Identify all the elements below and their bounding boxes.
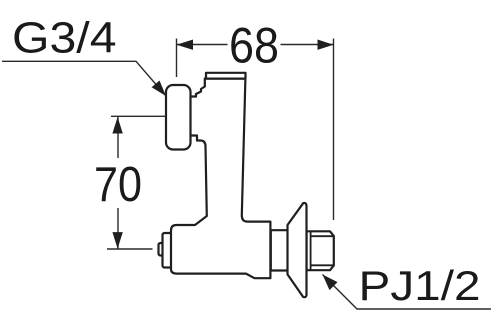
68 arrowhead right [318,40,334,50]
70 arrowhead bottom [112,232,122,249]
68 extension line right [333,39,335,221]
68 dimension line [177,44,333,46]
nipple PJ1/2 [307,231,334,270]
svg-text:70: 70 [94,158,142,212]
70 arrowhead top [112,117,122,134]
svg-text:PJ1/2: PJ1/2 [359,262,481,309]
70 dimension line [117,117,119,249]
70 extension line bottom [107,248,153,250]
svg-text:G3/4: G3/4 [12,14,117,63]
top cap [206,73,246,79]
68 extension line left [176,39,178,78]
escutcheon flange [288,203,307,297]
wall shank [271,230,288,270]
PJ1/2 leader line [323,275,492,310]
G3/4 arrowhead [152,81,166,97]
70 extension line top [111,115,166,117]
svg-text:68: 68 [229,18,279,74]
68 arrowhead left [177,40,194,50]
PJ1/2 arrowhead [323,275,338,291]
G3/4 capsule [166,85,191,150]
outlet nub [159,243,166,256]
outlet flange [163,233,173,268]
nipple thread lines [311,231,334,270]
G3/4 leader line [2,61,166,96]
valve body [171,79,270,279]
